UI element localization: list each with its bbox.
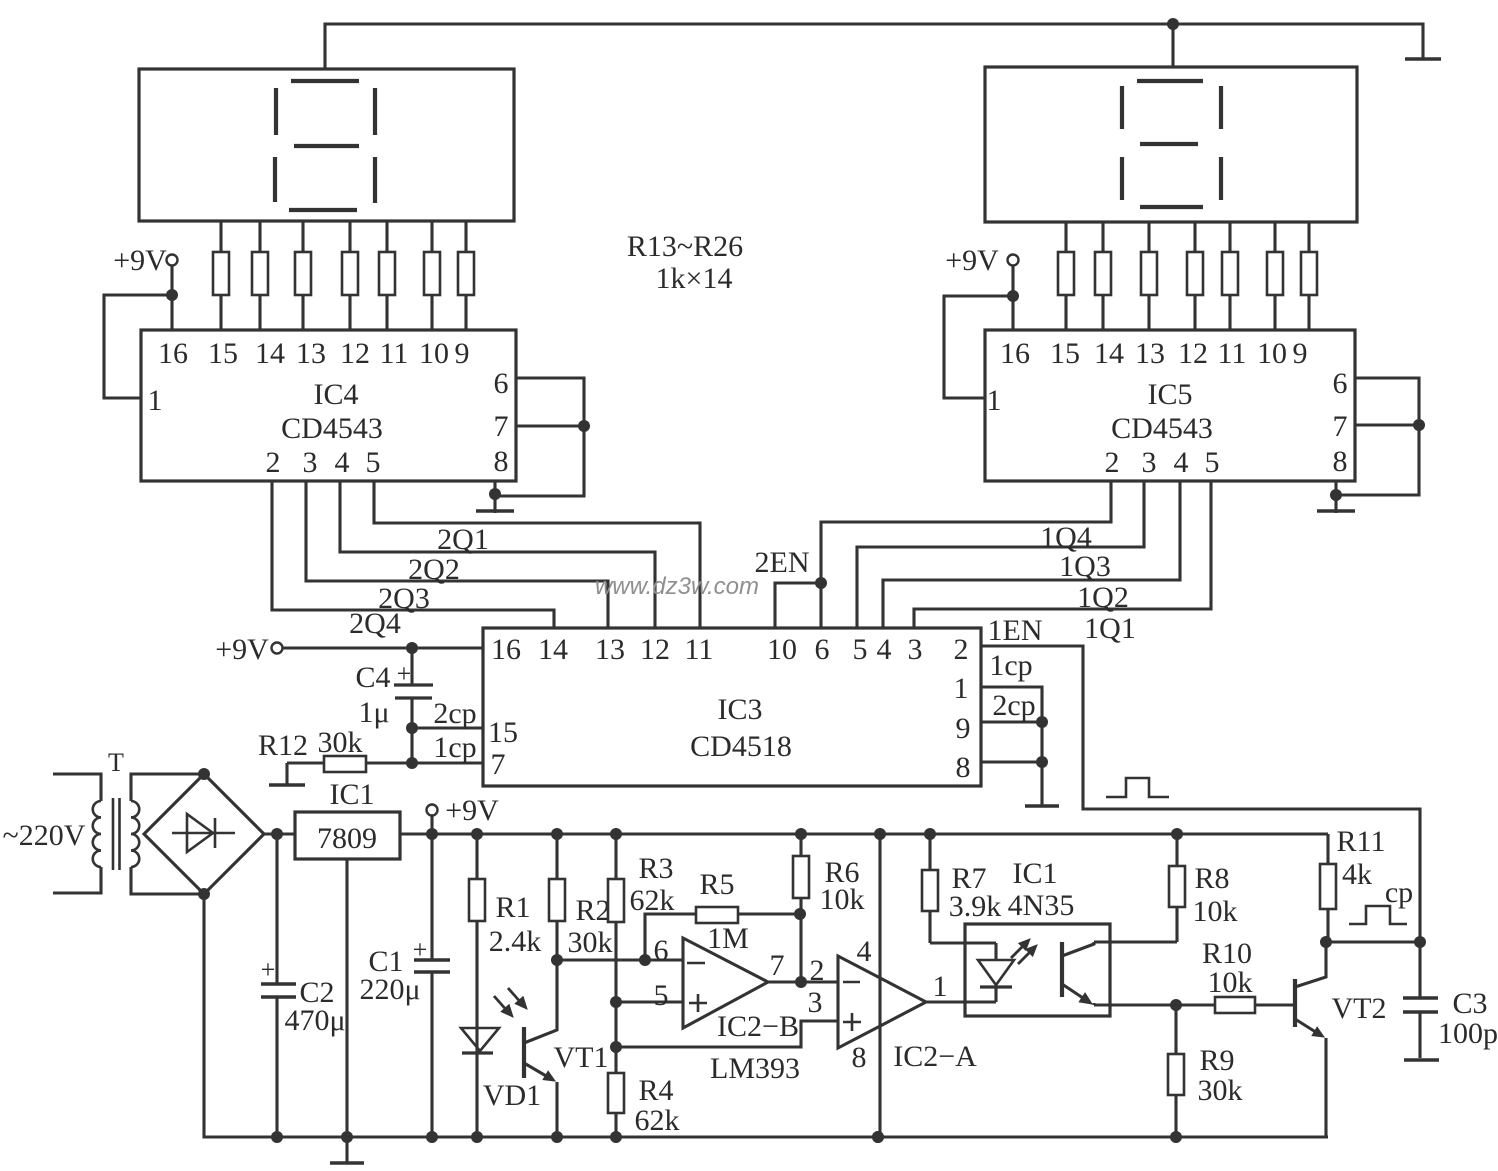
- svg-text:R13~R26: R13~R26: [627, 230, 743, 263]
- svg-text:11: 11: [380, 337, 409, 370]
- svg-text:9: 9: [455, 337, 470, 370]
- svg-text:62k: 62k: [630, 884, 675, 917]
- svg-text:R2: R2: [575, 894, 610, 927]
- svg-text:30k: 30k: [1198, 1074, 1243, 1107]
- svg-text:LM393: LM393: [710, 1052, 800, 1085]
- svg-text:~220V: ~220V: [3, 819, 86, 852]
- svg-text:1cp: 1cp: [433, 731, 476, 764]
- svg-text:1: 1: [933, 970, 948, 1003]
- svg-text:1cp: 1cp: [989, 649, 1032, 682]
- svg-text:1: 1: [148, 384, 163, 417]
- svg-text:15: 15: [208, 337, 238, 370]
- svg-text:3: 3: [303, 446, 318, 479]
- svg-text:16: 16: [491, 633, 521, 666]
- svg-text:7809: 7809: [317, 822, 377, 855]
- svg-text:+: +: [261, 955, 276, 984]
- svg-text:1M: 1M: [707, 922, 749, 955]
- svg-text:C4: C4: [355, 661, 390, 694]
- svg-text:R1: R1: [495, 891, 530, 924]
- svg-text:8: 8: [852, 1041, 867, 1074]
- svg-text:R8: R8: [1194, 862, 1229, 895]
- svg-text:3.9k: 3.9k: [949, 890, 1002, 923]
- svg-text:+: +: [397, 659, 412, 688]
- svg-text:+9V: +9V: [945, 244, 999, 277]
- svg-text:15: 15: [1050, 337, 1080, 370]
- svg-text:+9V: +9V: [445, 794, 499, 827]
- svg-text:+: +: [413, 935, 428, 964]
- svg-text:2EN: 2EN: [755, 546, 810, 579]
- svg-text:62k: 62k: [635, 1104, 680, 1137]
- svg-text:C3: C3: [1452, 987, 1487, 1020]
- svg-text:IC2−A: IC2−A: [893, 1040, 977, 1073]
- svg-text:IC1: IC1: [330, 778, 375, 811]
- svg-text:7: 7: [491, 748, 506, 781]
- svg-text:16: 16: [1000, 337, 1030, 370]
- svg-text:7: 7: [1333, 410, 1348, 443]
- svg-text:2.4k: 2.4k: [489, 925, 542, 958]
- svg-text:1Q3: 1Q3: [1059, 550, 1111, 583]
- svg-text:VD1: VD1: [483, 1079, 541, 1112]
- svg-text:CD4518: CD4518: [690, 730, 792, 763]
- svg-text:14: 14: [538, 633, 568, 666]
- svg-text:13: 13: [595, 633, 625, 666]
- svg-text:3: 3: [908, 633, 923, 666]
- svg-text:14: 14: [1094, 337, 1124, 370]
- svg-text:7: 7: [494, 410, 509, 443]
- svg-text:6: 6: [654, 934, 669, 967]
- svg-text:13: 13: [296, 337, 326, 370]
- svg-text:12: 12: [1178, 337, 1208, 370]
- svg-text:IC3: IC3: [718, 693, 763, 726]
- svg-text:6: 6: [494, 367, 509, 400]
- svg-text:1: 1: [954, 672, 969, 705]
- svg-text:1EN: 1EN: [988, 614, 1043, 647]
- svg-text:470μ: 470μ: [284, 1004, 345, 1037]
- svg-text:8: 8: [956, 751, 971, 784]
- svg-text:7: 7: [770, 949, 785, 982]
- svg-text:2Q1: 2Q1: [437, 523, 489, 556]
- svg-text:11: 11: [1218, 337, 1247, 370]
- svg-text:30k: 30k: [568, 926, 613, 959]
- svg-text:R5: R5: [699, 868, 734, 901]
- svg-text:6: 6: [815, 633, 830, 666]
- svg-text:2: 2: [1105, 446, 1120, 479]
- svg-text:5: 5: [1205, 446, 1220, 479]
- svg-text:3: 3: [808, 986, 823, 1019]
- svg-text:VT1: VT1: [554, 1041, 609, 1074]
- svg-text:+9V: +9V: [215, 633, 269, 666]
- svg-text:10k: 10k: [820, 883, 865, 916]
- svg-text:12: 12: [640, 633, 670, 666]
- svg-text:9: 9: [1293, 337, 1308, 370]
- svg-text:+9V: +9V: [113, 244, 167, 277]
- svg-text:16: 16: [158, 337, 188, 370]
- svg-text:R9: R9: [1199, 1044, 1234, 1077]
- svg-text:10: 10: [1257, 337, 1287, 370]
- svg-text:CD4543: CD4543: [281, 412, 383, 445]
- svg-text:VT2: VT2: [1332, 992, 1387, 1025]
- svg-text:2cp: 2cp: [992, 689, 1035, 722]
- svg-text:5: 5: [654, 979, 669, 1012]
- svg-text:1: 1: [987, 384, 1002, 417]
- svg-text:4: 4: [1174, 446, 1189, 479]
- svg-text:3: 3: [1142, 446, 1157, 479]
- svg-text:2: 2: [810, 954, 825, 987]
- svg-text:9: 9: [956, 712, 971, 745]
- svg-text:IC2−B: IC2−B: [717, 1010, 799, 1043]
- svg-text:13: 13: [1135, 337, 1165, 370]
- svg-text:IC4: IC4: [314, 378, 359, 411]
- svg-text:11: 11: [685, 633, 714, 666]
- svg-text:IC1: IC1: [1013, 857, 1058, 890]
- svg-text:4N35: 4N35: [1008, 889, 1075, 922]
- svg-text:100p: 100p: [1438, 1017, 1498, 1050]
- svg-text:CD4543: CD4543: [1111, 412, 1213, 445]
- svg-text:www.dz3w.com: www.dz3w.com: [595, 573, 759, 600]
- svg-text:10k: 10k: [1193, 895, 1238, 928]
- svg-text:1Q1: 1Q1: [1084, 612, 1136, 645]
- svg-text:220μ: 220μ: [359, 973, 420, 1006]
- svg-text:14: 14: [255, 337, 285, 370]
- svg-text:cp: cp: [1385, 876, 1413, 909]
- svg-text:4: 4: [857, 935, 872, 968]
- svg-text:10: 10: [419, 337, 449, 370]
- svg-text:30k: 30k: [318, 726, 363, 759]
- svg-text:10: 10: [767, 633, 797, 666]
- svg-text:2: 2: [954, 633, 969, 666]
- svg-text:R3: R3: [638, 852, 673, 885]
- svg-text:5: 5: [853, 633, 868, 666]
- svg-text:1Q2: 1Q2: [1077, 581, 1129, 614]
- svg-text:6: 6: [1333, 367, 1348, 400]
- svg-text:T: T: [108, 748, 124, 777]
- svg-text:8: 8: [494, 445, 509, 478]
- svg-text:R4: R4: [638, 1074, 673, 1107]
- svg-text:10k: 10k: [1208, 966, 1253, 999]
- svg-text:R12: R12: [258, 729, 308, 762]
- svg-text:1μ: 1μ: [358, 696, 389, 729]
- svg-text:2Q4: 2Q4: [349, 607, 401, 640]
- svg-text:IC5: IC5: [1148, 378, 1193, 411]
- svg-text:1k×14: 1k×14: [656, 262, 733, 295]
- svg-text:15: 15: [488, 716, 518, 749]
- svg-text:4k: 4k: [1342, 858, 1372, 891]
- svg-text:4: 4: [335, 446, 350, 479]
- svg-text:5: 5: [366, 446, 381, 479]
- svg-text:2: 2: [266, 446, 281, 479]
- svg-text:8: 8: [1333, 445, 1348, 478]
- svg-text:12: 12: [340, 337, 370, 370]
- svg-text:R11: R11: [1337, 825, 1386, 858]
- svg-text:4: 4: [877, 633, 892, 666]
- svg-text:2cp: 2cp: [433, 697, 476, 730]
